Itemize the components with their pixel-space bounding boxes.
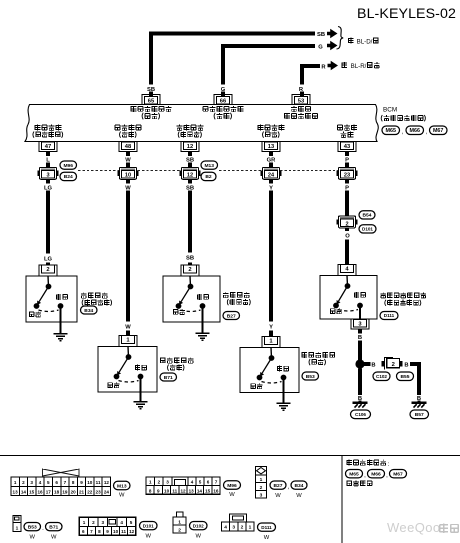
- svg-text:LG: LG: [44, 257, 53, 263]
- svg-text:9: 9: [80, 480, 83, 485]
- svg-text:B71: B71: [49, 524, 58, 530]
- connector ref B27: [223, 312, 240, 320]
- svg-text:5: 5: [47, 480, 50, 485]
- svg-text:B71: B71: [164, 375, 173, 381]
- connector ref B71: [46, 523, 63, 531]
- label open: [354, 292, 359, 298]
- wire to ground: [282, 378, 284, 404]
- connector ref B2: [201, 172, 216, 180]
- svg-text:D111: D111: [384, 313, 395, 318]
- connector ref B55: [397, 372, 414, 381]
- wire SB from BCM pin 65 up and right: [149, 91, 153, 96]
- connector ref M66: [368, 470, 385, 478]
- wire to ground: [201, 306, 203, 333]
- switch symbol rear LH: [127, 347, 130, 358]
- svg-text:M96: M96: [63, 163, 73, 169]
- label closed: [330, 309, 335, 314]
- wire B stub right of junction: [364, 362, 371, 366]
- svg-text:W: W: [125, 185, 131, 191]
- wire Y column 4 down: [269, 179, 273, 183]
- svg-text:BL-KEYLES-02: BL-KEYLES-02: [357, 6, 456, 22]
- pin 4 of back door lock actuator: [338, 264, 356, 275]
- svg-text:B53: B53: [306, 374, 315, 380]
- svg-text:1: 1: [249, 525, 252, 531]
- connector ref B57: [410, 410, 429, 419]
- svg-text:1: 1: [149, 480, 152, 485]
- svg-text:BL-D/: BL-D/: [357, 39, 373, 46]
- svg-text:2: 2: [345, 221, 348, 227]
- connector ref M67: [390, 470, 407, 478]
- svg-text:SB: SB: [147, 87, 155, 93]
- inline connector 12: [180, 171, 182, 176]
- wire B down from junction: [358, 369, 362, 394]
- component label: rear door switch (left): [160, 358, 165, 363]
- label closed: [251, 384, 256, 389]
- svg-text:11: 11: [96, 480, 101, 485]
- wire from BCM pin to connector 12: [188, 152, 192, 157]
- svg-text:21: 21: [79, 489, 85, 494]
- pin 3 of back door lock actuator: [351, 319, 369, 329]
- svg-text:M13: M13: [204, 163, 214, 169]
- wire SB column 3 down: [188, 179, 192, 183]
- connector ref M65: [382, 126, 400, 135]
- connector face D102 (2 pin vertical): [173, 512, 186, 533]
- svg-text:9: 9: [106, 529, 109, 534]
- svg-text:W: W: [146, 533, 152, 539]
- svg-text:O: O: [345, 234, 350, 240]
- svg-text:3: 3: [260, 493, 263, 499]
- svg-text:,: ,: [402, 130, 404, 136]
- svg-text:12: 12: [180, 488, 186, 493]
- svg-text:P: P: [345, 158, 349, 164]
- svg-text::: :: [388, 462, 390, 468]
- wire from contact to pin 3: [359, 306, 361, 320]
- switch symbol passenger door: [189, 276, 192, 287]
- svg-text:SB: SB: [186, 158, 194, 164]
- wire to ground: [59, 306, 61, 334]
- connector ref M96: [60, 161, 77, 169]
- svg-text:B53: B53: [28, 524, 37, 530]
- svg-text:,: ,: [288, 485, 290, 491]
- svg-text:W: W: [196, 533, 202, 539]
- svg-text:B27: B27: [274, 483, 283, 489]
- svg-text:M67: M67: [393, 472, 403, 478]
- junction node: [355, 359, 364, 368]
- svg-text:20: 20: [71, 489, 77, 494]
- svg-text:4: 4: [224, 525, 227, 531]
- BCM module box with torn edges: [25, 105, 378, 142]
- svg-text:8: 8: [98, 529, 101, 534]
- connector ref B34: [81, 306, 98, 314]
- wire from box 2 right then down: [410, 364, 419, 395]
- svg-text:19: 19: [62, 489, 68, 494]
- BCM pin 13: [262, 142, 280, 152]
- svg-text:.: .: [42, 526, 44, 532]
- svg-text:2: 2: [46, 267, 49, 273]
- connector ref B24: [60, 172, 77, 180]
- svg-text:14: 14: [197, 488, 203, 493]
- svg-text:B34: B34: [295, 483, 304, 489]
- label: back door switch: [337, 125, 342, 130]
- svg-text:D101: D101: [143, 523, 154, 528]
- svg-text:M96: M96: [227, 483, 237, 489]
- svg-text:18: 18: [54, 489, 60, 494]
- svg-text:M13: M13: [117, 483, 127, 489]
- pin 2 of front door switch (driver): [46, 263, 50, 269]
- svg-text:4: 4: [191, 480, 194, 485]
- svg-text:SB: SB: [317, 32, 325, 38]
- svg-text:SB: SB: [186, 185, 194, 191]
- inline connector 2 (B54/D101): [337, 219, 339, 224]
- svg-text:15: 15: [29, 489, 35, 494]
- inline connector 3: [38, 171, 40, 176]
- svg-text:12: 12: [187, 144, 193, 150]
- ground: [54, 334, 68, 341]
- svg-text:2: 2: [22, 480, 25, 485]
- svg-text:1: 1: [260, 477, 263, 483]
- svg-text:G: G: [318, 45, 323, 51]
- svg-text:12: 12: [104, 480, 110, 485]
- svg-text:SB: SB: [186, 256, 194, 262]
- svg-text:13: 13: [268, 144, 275, 150]
- separator line: [0, 455, 460, 457]
- wire G from BCM pin 66 up and right: [221, 91, 225, 96]
- wire B from pin 3 down: [358, 330, 362, 334]
- svg-text:2: 2: [158, 480, 161, 485]
- BCM pin 47: [39, 142, 57, 152]
- wire to ground: [139, 377, 141, 402]
- svg-text:6: 6: [82, 529, 85, 534]
- connector ref B34: [291, 481, 307, 489]
- svg-text:53: 53: [298, 98, 305, 104]
- svg-text:G: G: [221, 87, 226, 93]
- svg-text:3: 3: [166, 480, 169, 485]
- svg-text:B55: B55: [401, 374, 410, 380]
- brace for BL-D/lock: [337, 27, 344, 50]
- BCM pin 43: [338, 142, 356, 152]
- svg-text:M67: M67: [433, 128, 444, 134]
- wire P column 5 down to inline connector: [345, 179, 349, 183]
- connector ref B71: [160, 373, 177, 381]
- connector ref M66: [406, 126, 424, 135]
- connector ref M67: [430, 126, 448, 135]
- svg-text:2: 2: [260, 485, 263, 491]
- label: door switch (rear right): [258, 124, 264, 130]
- svg-text:3: 3: [46, 173, 49, 179]
- svg-text:23: 23: [96, 489, 102, 494]
- switch symbol back door: [346, 276, 349, 287]
- svg-text:B: B: [404, 362, 408, 368]
- svg-text:4: 4: [120, 520, 123, 525]
- svg-text:2: 2: [188, 267, 191, 273]
- svg-text:5: 5: [130, 520, 133, 525]
- body ground symbol right: [412, 402, 427, 404]
- pin 1 of rear door switch (LH): [126, 331, 130, 340]
- svg-text:12: 12: [129, 529, 135, 534]
- svg-text:43: 43: [344, 144, 351, 150]
- svg-text:24: 24: [104, 489, 110, 494]
- label open: [277, 366, 282, 372]
- svg-text:W: W: [125, 158, 131, 164]
- wire from BCM pin to connector 24: [269, 152, 273, 157]
- svg-text:48: 48: [125, 144, 132, 150]
- svg-text:B24: B24: [64, 174, 73, 180]
- arrow to BL-D: [327, 29, 338, 39]
- svg-text:10: 10: [125, 173, 131, 179]
- back door lock actuator box: [320, 276, 377, 320]
- inline connector 24: [261, 171, 263, 176]
- svg-text:13: 13: [13, 489, 19, 494]
- component label: back door lock actuator (back door switch): [380, 292, 386, 298]
- svg-text:1: 1: [83, 520, 86, 525]
- connector ref C102: [373, 372, 390, 381]
- svg-text:B: B: [371, 362, 375, 368]
- switch symbol driver door: [47, 276, 50, 287]
- label: door switch (rear left): [115, 125, 120, 130]
- wire W column 2 down: [126, 179, 130, 183]
- svg-text:17: 17: [46, 489, 52, 494]
- svg-text:8: 8: [149, 488, 152, 493]
- svg-text:W: W: [229, 492, 235, 498]
- harness boundary dashed line: [78, 170, 338, 172]
- net label: to BL-R / door: [342, 62, 348, 68]
- label closed: [29, 312, 34, 317]
- label: back door opener output: [291, 106, 297, 112]
- svg-text:2: 2: [92, 520, 95, 525]
- svg-text:1: 1: [16, 526, 19, 532]
- label: door lock output (all): [131, 106, 137, 112]
- svg-text:Y: Y: [269, 185, 273, 191]
- connector face B53/B71 (1 pin): [13, 516, 21, 532]
- connector ref D101: [359, 225, 376, 233]
- svg-text:12: 12: [187, 173, 193, 179]
- connector ref D102: [190, 522, 208, 530]
- connector ref M13: [201, 161, 218, 169]
- svg-text:11: 11: [121, 529, 126, 534]
- net label: to BL-D / lock: [348, 37, 354, 43]
- svg-text:W: W: [51, 534, 57, 540]
- svg-text:W: W: [264, 535, 270, 541]
- wire from BCM pin to connector 3: [46, 152, 50, 157]
- info box divider: [341, 456, 343, 543]
- connector ref M65: [346, 470, 363, 478]
- svg-text:B27: B27: [227, 313, 236, 319]
- svg-text:Y: Y: [269, 325, 273, 331]
- svg-text:2: 2: [178, 527, 181, 533]
- wire from BCM pin to connector 10: [126, 152, 130, 157]
- label open: [56, 294, 61, 300]
- svg-text:1: 1: [14, 480, 17, 485]
- BCM pin 48: [119, 142, 137, 152]
- svg-text:6: 6: [55, 480, 58, 485]
- svg-text:C106: C106: [355, 412, 366, 417]
- svg-text:B2: B2: [205, 174, 212, 180]
- svg-text:M65: M65: [386, 128, 397, 134]
- svg-text:10: 10: [164, 488, 170, 493]
- svg-text:16: 16: [37, 489, 43, 494]
- svg-text:2: 2: [241, 525, 244, 531]
- wire O column 5 down to actuator: [345, 240, 349, 269]
- connector ref B27: [270, 481, 286, 489]
- svg-text:D102: D102: [193, 523, 204, 528]
- svg-text:M65: M65: [349, 472, 359, 478]
- svg-text:3: 3: [30, 480, 33, 485]
- svg-text:5: 5: [199, 480, 202, 485]
- svg-text:8: 8: [72, 480, 75, 485]
- svg-text:66: 66: [220, 98, 227, 104]
- svg-text:15: 15: [205, 488, 211, 493]
- svg-text:,: ,: [386, 473, 388, 479]
- rear door switch (RH) box: [240, 348, 299, 393]
- svg-text:3: 3: [232, 525, 235, 531]
- pin box 2 (C102/B55 joint): [384, 357, 393, 369]
- connector ref D111: [380, 312, 398, 320]
- svg-text:13: 13: [189, 488, 195, 493]
- BCM pin 66: [214, 95, 232, 105]
- svg-text:24: 24: [268, 173, 275, 179]
- svg-text:W: W: [296, 493, 302, 499]
- svg-text:B: B: [358, 335, 362, 341]
- svg-text:16: 16: [213, 488, 219, 493]
- svg-text:GR: GR: [267, 158, 277, 164]
- svg-text:2: 2: [392, 362, 395, 368]
- svg-text:14: 14: [21, 489, 27, 494]
- component label: front door switch (passenger side): [223, 292, 229, 298]
- label closed: [173, 310, 178, 315]
- svg-text:W: W: [30, 534, 36, 540]
- wire R from BCM pin 53 up and right: [300, 91, 304, 96]
- svg-text:11: 11: [172, 488, 177, 493]
- svg-text:10: 10: [113, 529, 119, 534]
- wire down right branch: [418, 401, 421, 403]
- connector face M13 (24 pin): [11, 477, 111, 496]
- svg-text:B57: B57: [415, 412, 424, 418]
- svg-text:M66: M66: [410, 128, 421, 134]
- inline connector 23: [337, 171, 339, 176]
- arrow to BL-R: [328, 61, 339, 71]
- connector face D111 (4 pin): [222, 514, 255, 531]
- svg-text:47: 47: [45, 144, 51, 150]
- svg-text:D101: D101: [362, 227, 373, 232]
- svg-text:B34: B34: [84, 308, 93, 314]
- connector ref M13: [114, 481, 131, 489]
- front door switch (driver side) box: [26, 276, 77, 322]
- ground: [134, 402, 148, 409]
- svg-text:W: W: [119, 493, 125, 499]
- component label: front door switch (driver side): [81, 292, 87, 298]
- svg-text:65: 65: [148, 98, 155, 104]
- connector ref D111: [258, 523, 276, 531]
- label closed: [108, 383, 113, 388]
- svg-text:23: 23: [344, 173, 350, 179]
- inline connector 10: [118, 171, 120, 176]
- svg-text:7: 7: [215, 480, 218, 485]
- svg-text:P: P: [345, 185, 349, 191]
- connector ref B53: [24, 523, 41, 531]
- svg-text:BCM: BCM: [383, 107, 397, 114]
- svg-text:9: 9: [157, 488, 160, 493]
- BCM subtitle (body control module): [381, 115, 382, 121]
- connector ref D101: [140, 522, 158, 530]
- wire LG column 1 down: [46, 179, 50, 183]
- connector ref B54: [359, 211, 375, 219]
- BCM pin 65: [142, 95, 160, 105]
- label: door switch (passenger side): [177, 124, 183, 130]
- svg-text:L: L: [46, 158, 50, 164]
- svg-text:B54: B54: [363, 213, 372, 219]
- connector face D101 (12 pin): [79, 517, 135, 535]
- svg-text:LG: LG: [44, 185, 53, 191]
- pin 2 of front door switch (passenger): [188, 263, 192, 269]
- svg-text:M66: M66: [371, 472, 381, 478]
- switch symbol rear RH: [270, 348, 273, 359]
- label open: [135, 365, 140, 371]
- body ground symbol left: [353, 402, 368, 404]
- svg-text:22: 22: [87, 489, 93, 494]
- arrow to BL-D: [327, 41, 338, 51]
- svg-text:BL-R/: BL-R/: [351, 63, 367, 70]
- connector face M96 (16 pin): [146, 477, 220, 494]
- body ground C106: [358, 393, 362, 395]
- wire from BCM pin to connector 23: [345, 152, 349, 157]
- svg-text:R: R: [321, 64, 326, 70]
- info text: electrical unit: [347, 481, 352, 486]
- connector ref B53: [302, 372, 319, 380]
- label: door switch (driver side): [35, 124, 41, 130]
- BCM pin 53: [292, 95, 310, 105]
- svg-text:D111: D111: [261, 525, 272, 530]
- connector ref C106: [351, 410, 371, 419]
- front door switch (passenger side) box: [163, 276, 220, 322]
- svg-text:4: 4: [39, 480, 42, 485]
- svg-text:6: 6: [207, 480, 210, 485]
- svg-text:WeeQoo: WeeQoo: [387, 520, 440, 535]
- ground: [196, 333, 210, 340]
- svg-text:,: ,: [426, 130, 428, 136]
- component label: rear door switch (right): [302, 352, 308, 358]
- BCM pin 12: [181, 142, 199, 152]
- connector face B27/B34 (3 pin vertical): [256, 467, 267, 499]
- svg-text:C102: C102: [376, 374, 387, 379]
- label: door unlock output (all): [203, 106, 208, 111]
- svg-text:W: W: [125, 325, 131, 331]
- pin 1 of rear door switch (RH): [269, 331, 273, 341]
- info text: refer to the following: [347, 460, 352, 466]
- ground: [277, 403, 291, 410]
- svg-text:7: 7: [64, 480, 67, 485]
- svg-text:W: W: [275, 493, 281, 499]
- svg-text:,: ,: [364, 473, 366, 479]
- svg-text:7: 7: [90, 529, 93, 534]
- rear door switch (LH) box: [98, 347, 157, 393]
- connector ref M96: [224, 481, 241, 489]
- svg-text:3: 3: [102, 520, 105, 525]
- svg-text:1: 1: [178, 519, 181, 525]
- svg-text:10: 10: [87, 480, 93, 485]
- label open: [197, 294, 202, 300]
